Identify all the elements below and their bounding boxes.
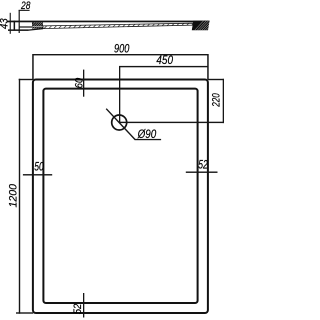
dim 43 line [10,13,11,34]
dim 28 extension line [19,10,20,33]
svg-text:220: 220 [211,93,223,108]
dim 900 left extension [32,54,34,80]
dim 50 line [23,174,52,175]
profile right rim block (hatched) [192,21,210,30]
profile top surface line [7,21,210,23]
dim 28 line [19,10,30,11]
svg-text:52: 52 [198,157,208,171]
profile floor sloping band (hatched wedge) [43,23,193,28]
profile bottom transition line [29,29,44,31]
svg-text:50: 50 [34,159,44,173]
drain leader diagonal [106,109,135,140]
plan outer rectangle [33,80,208,314]
profile rim inner ledge line [20,26,33,27]
drain vertical center line (450 extension) [119,66,120,123]
svg-text:28: 28 [20,0,31,12]
profile left rim bottom edge [8,29,29,31]
dim 220 top extension [208,79,224,80]
profile left rim outer edge [14,21,16,31]
dim 900 line [33,54,208,55]
dim 450 line [119,66,208,67]
drain horizontal center line (220 extension) [119,122,224,123]
svg-text:Ø90: Ø90 [137,127,157,141]
svg-text:1200: 1200 [8,183,20,207]
dim 1200 top extension [19,79,34,80]
svg-text:450: 450 [156,53,173,67]
leader underline [135,139,162,140]
svg-text:52: 52 [72,304,84,315]
dim 220 line [223,79,224,123]
drain circle [112,115,127,130]
plan inner rectangle [43,89,197,303]
dim 52 bottom line [83,293,84,318]
dim 60 line [83,70,84,97]
svg-text:43: 43 [0,18,11,30]
profile left hatch section [32,22,43,28]
dim 1200 bottom extension [16,312,33,313]
dim 52 right line [186,172,218,173]
svg-text:60: 60 [74,77,86,88]
svg-text:900: 900 [114,42,130,56]
dim 900 right extension [207,54,209,80]
dim 1200 line [19,79,20,314]
